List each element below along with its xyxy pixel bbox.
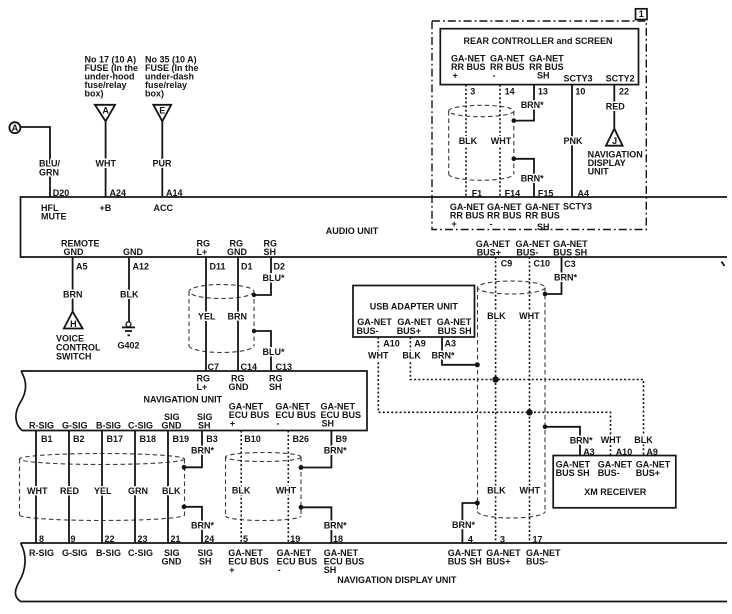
svg-text:UNIT: UNIT <box>588 166 609 176</box>
svg-text:L+: L+ <box>197 382 208 392</box>
svg-text:4: 4 <box>468 535 473 545</box>
svg-text:WHT: WHT <box>601 435 622 445</box>
svg-text:BRN*: BRN* <box>452 520 475 530</box>
svg-text:B19: B19 <box>173 434 190 444</box>
svg-text:A24: A24 <box>110 188 127 198</box>
svg-text:C3: C3 <box>564 259 576 269</box>
svg-text:E: E <box>159 105 165 115</box>
svg-text:SCTY3: SCTY3 <box>563 202 592 212</box>
svg-text:F15: F15 <box>538 188 554 198</box>
svg-text:C9: C9 <box>501 259 513 269</box>
svg-text:F14: F14 <box>505 188 521 198</box>
svg-text:BRN*: BRN* <box>432 351 455 361</box>
svg-text:GND: GND <box>162 556 183 566</box>
svg-text:BLK: BLK <box>459 136 478 146</box>
svg-text:B2: B2 <box>73 434 85 444</box>
svg-text:WHT: WHT <box>368 351 389 361</box>
svg-text:WHT: WHT <box>96 159 117 169</box>
svg-text:BUS-: BUS- <box>357 326 379 336</box>
svg-text:WHT: WHT <box>491 136 512 146</box>
svg-text:GND: GND <box>227 247 248 257</box>
svg-text:+: + <box>452 219 457 229</box>
svg-text:9: 9 <box>71 534 76 544</box>
svg-text:+: + <box>230 418 235 428</box>
svg-text:A10: A10 <box>616 447 633 457</box>
svg-text:GND: GND <box>64 247 85 257</box>
svg-text:B10: B10 <box>244 434 261 444</box>
svg-text:-: - <box>493 70 496 80</box>
svg-text:USB ADAPTER UNIT: USB ADAPTER UNIT <box>370 302 459 312</box>
svg-text:RR BUS: RR BUS <box>525 210 560 220</box>
svg-text:A14: A14 <box>166 188 183 198</box>
svg-text:BUS-: BUS- <box>598 468 620 478</box>
svg-text:BRN: BRN <box>63 290 83 300</box>
svg-text:3: 3 <box>470 87 475 97</box>
svg-text:PUR: PUR <box>153 159 173 169</box>
svg-text:A: A <box>12 123 19 133</box>
svg-text:13: 13 <box>538 87 548 97</box>
svg-text:BUS+: BUS+ <box>477 247 501 257</box>
svg-text:PNK: PNK <box>564 136 584 146</box>
svg-text:REAR CONTROLLER and SCREEN: REAR CONTROLLER and SCREEN <box>463 36 612 46</box>
svg-text:GND: GND <box>229 382 250 392</box>
svg-text:NAVIGATION UNIT: NAVIGATION UNIT <box>144 394 223 404</box>
svg-text:D2: D2 <box>274 262 286 272</box>
svg-text:SH: SH <box>264 247 277 257</box>
svg-text:23: 23 <box>138 534 148 544</box>
svg-text:BRN: BRN <box>228 312 248 322</box>
svg-text:B-SIG: B-SIG <box>96 421 121 431</box>
svg-text:B-SIG: B-SIG <box>96 548 121 558</box>
svg-text:AUDIO UNIT: AUDIO UNIT <box>326 226 379 236</box>
svg-text:BUS+: BUS+ <box>397 326 421 336</box>
svg-text:BRN*: BRN* <box>191 446 214 456</box>
svg-text:19: 19 <box>290 534 300 544</box>
svg-text:ACC: ACC <box>154 203 174 213</box>
svg-text:WHT: WHT <box>520 485 541 495</box>
svg-text:BRN*: BRN* <box>570 435 593 445</box>
svg-text:SH: SH <box>322 418 335 428</box>
svg-text:BUS SH: BUS SH <box>556 468 590 478</box>
svg-text:14: 14 <box>505 87 515 97</box>
svg-text:22: 22 <box>619 87 629 97</box>
svg-text:A9: A9 <box>414 338 426 348</box>
svg-text:10: 10 <box>575 87 585 97</box>
svg-text:MUTE: MUTE <box>41 212 67 222</box>
svg-text:BLU*: BLU* <box>263 273 285 283</box>
svg-text:box): box) <box>145 89 164 99</box>
svg-text:22: 22 <box>105 534 115 544</box>
svg-text:YEL: YEL <box>94 486 112 496</box>
svg-text:24: 24 <box>204 534 214 544</box>
svg-text:SCTY3: SCTY3 <box>564 73 593 83</box>
svg-text:BRN*: BRN* <box>191 520 214 530</box>
svg-text:A5: A5 <box>76 262 88 272</box>
svg-text:A: A <box>102 105 109 115</box>
svg-text:BRN*: BRN* <box>324 446 347 456</box>
svg-text:3: 3 <box>500 535 505 545</box>
svg-text:SH: SH <box>537 222 550 232</box>
svg-text:WHT: WHT <box>519 311 540 321</box>
svg-text:R-SIG: R-SIG <box>29 421 54 431</box>
svg-text:C-SIG: C-SIG <box>128 548 153 558</box>
svg-text:8: 8 <box>39 534 44 544</box>
svg-text:BLK: BLK <box>232 485 251 495</box>
svg-text:5: 5 <box>243 534 248 544</box>
svg-text:B17: B17 <box>107 434 124 444</box>
svg-text:C13: C13 <box>276 362 293 372</box>
svg-text:BUS SH: BUS SH <box>438 326 472 336</box>
svg-text:RED: RED <box>60 486 80 496</box>
svg-text:L+: L+ <box>197 247 208 257</box>
svg-text:C7: C7 <box>208 362 220 372</box>
svg-text:XM RECEIVER: XM RECEIVER <box>584 487 647 497</box>
svg-text:B18: B18 <box>140 434 157 444</box>
svg-text:G-SIG: G-SIG <box>62 421 88 431</box>
svg-text:-: - <box>490 219 493 229</box>
svg-text:A12: A12 <box>133 262 150 272</box>
svg-text:-: - <box>278 565 281 575</box>
svg-text:YEL: YEL <box>198 312 216 322</box>
svg-text:BRN*: BRN* <box>324 520 347 530</box>
svg-text:BUS SH: BUS SH <box>448 557 482 567</box>
svg-text:18: 18 <box>333 534 343 544</box>
svg-text:BLK: BLK <box>120 290 139 300</box>
svg-text:BRN*: BRN* <box>521 173 544 183</box>
svg-text:17: 17 <box>533 535 543 545</box>
svg-text:H: H <box>70 319 77 329</box>
svg-text:A10: A10 <box>383 338 400 348</box>
svg-text:21: 21 <box>171 534 181 544</box>
svg-text:A3: A3 <box>583 447 595 457</box>
svg-text:D20: D20 <box>53 188 70 198</box>
svg-text:G-SIG: G-SIG <box>62 548 88 558</box>
svg-text:B26: B26 <box>293 434 310 444</box>
svg-text:BRN*: BRN* <box>521 100 544 110</box>
svg-text:B1: B1 <box>41 434 53 444</box>
svg-text:R-SIG: R-SIG <box>29 548 54 558</box>
svg-text:SH: SH <box>269 382 282 392</box>
svg-text:D11: D11 <box>210 262 226 272</box>
svg-text:BUS-: BUS- <box>526 557 548 567</box>
svg-text:WHT: WHT <box>276 485 297 495</box>
svg-text:G402: G402 <box>118 341 140 351</box>
svg-text:SH: SH <box>198 421 211 431</box>
svg-text:BLK: BLK <box>162 486 181 496</box>
svg-text:BLK: BLK <box>634 435 653 445</box>
svg-text:BLK: BLK <box>487 485 506 495</box>
svg-text:BLU*: BLU* <box>263 347 285 357</box>
svg-text:SH: SH <box>537 70 550 80</box>
svg-text:ECU BUS: ECU BUS <box>275 410 316 420</box>
svg-text:-: - <box>276 418 279 428</box>
svg-text:A9: A9 <box>646 447 658 457</box>
svg-text:BRN*: BRN* <box>554 273 577 283</box>
svg-text:SH: SH <box>324 565 337 575</box>
svg-text:SWITCH: SWITCH <box>56 352 92 362</box>
svg-text:SCTY2: SCTY2 <box>606 73 635 83</box>
svg-text:box): box) <box>85 89 104 99</box>
svg-text:NAVIGATION DISPLAY UNIT: NAVIGATION DISPLAY UNIT <box>337 575 457 585</box>
svg-text:BUS SH: BUS SH <box>553 247 587 257</box>
svg-text:J: J <box>612 136 617 146</box>
svg-text:B9: B9 <box>336 434 348 444</box>
svg-text:ECU BUS: ECU BUS <box>277 556 318 566</box>
svg-text:C-SIG: C-SIG <box>128 421 153 431</box>
svg-text:A4: A4 <box>578 188 590 198</box>
svg-text:+: + <box>229 565 234 575</box>
svg-text:F1: F1 <box>472 188 483 198</box>
svg-text:+: + <box>453 70 458 80</box>
svg-text:D1: D1 <box>241 262 253 272</box>
svg-text:BUS+: BUS+ <box>486 557 510 567</box>
svg-text:GRN: GRN <box>39 168 59 178</box>
svg-text:C10: C10 <box>534 259 551 269</box>
svg-text:B3: B3 <box>206 434 218 444</box>
svg-text:GND: GND <box>123 247 144 257</box>
svg-text:+B: +B <box>100 203 112 213</box>
svg-text:BUS+: BUS+ <box>636 468 660 478</box>
svg-text:GND: GND <box>162 421 183 431</box>
svg-text:BUS-: BUS- <box>516 247 538 257</box>
svg-text:1: 1 <box>639 9 644 19</box>
svg-text:GRN: GRN <box>128 486 148 496</box>
svg-text:RED: RED <box>606 102 626 112</box>
svg-text:SH: SH <box>199 556 212 566</box>
svg-text:A3: A3 <box>445 338 457 348</box>
svg-text:WHT: WHT <box>27 486 48 496</box>
svg-text:C14: C14 <box>241 362 258 372</box>
svg-text:BLK: BLK <box>402 351 421 361</box>
svg-text:BLK: BLK <box>487 311 506 321</box>
